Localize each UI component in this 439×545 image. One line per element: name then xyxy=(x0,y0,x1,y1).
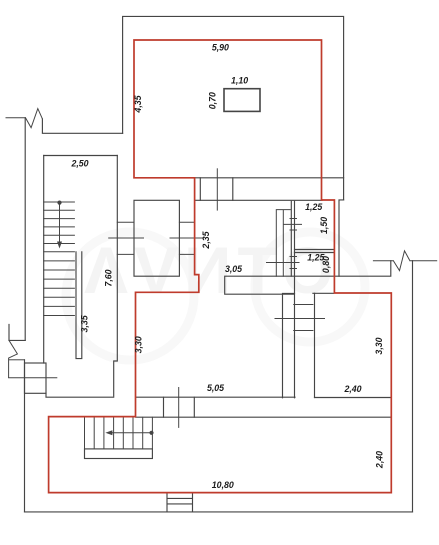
table rect top room xyxy=(224,89,260,112)
wall outer left upper xyxy=(24,118,26,341)
wall outer bottom xyxy=(25,511,413,513)
door leaf middle right xyxy=(276,210,290,277)
stairwell left wall xyxy=(43,156,45,364)
svg-text:2,40: 2,40 xyxy=(374,451,384,469)
door jambs top middle xyxy=(200,178,233,201)
bottom stair arrow head xyxy=(105,430,112,435)
bottom stair arrow xyxy=(108,432,150,434)
right room bottom wall xyxy=(315,397,391,399)
wall top-left horizontal xyxy=(42,119,122,133)
svg-text:3,05: 3,05 xyxy=(225,264,242,274)
stair direction arrow xyxy=(59,204,61,246)
svg-text:0,70: 0,70 xyxy=(207,92,217,109)
svg-text:ΛVИТО: ΛVИТО xyxy=(84,233,340,307)
wall outer top room xyxy=(123,16,344,200)
stair arrow dot upper xyxy=(57,201,61,205)
svg-text:3,30: 3,30 xyxy=(374,337,384,354)
watermark circle 1 xyxy=(66,232,194,360)
red apartment boundary xyxy=(49,40,392,493)
svg-text:5,05: 5,05 xyxy=(207,383,224,393)
svg-text:1,10: 1,10 xyxy=(231,76,248,86)
vestibule door axis xyxy=(9,377,57,379)
svg-text:3,35: 3,35 xyxy=(79,315,89,332)
stair stringer wall xyxy=(76,252,82,359)
svg-text:1,50: 1,50 xyxy=(319,217,329,234)
break stub lower-left xyxy=(10,359,25,361)
svg-text:5,90: 5,90 xyxy=(212,43,229,53)
svg-text:2,35: 2,35 xyxy=(201,231,211,249)
vestibule wall to corridor xyxy=(46,393,114,397)
vent box ticks xyxy=(109,222,204,254)
wall outer left lower xyxy=(24,360,26,512)
right room left wall xyxy=(314,293,316,397)
wall below band thick xyxy=(283,293,295,397)
small rooms divider xyxy=(295,250,335,253)
stair risers lower flight xyxy=(44,261,75,316)
watermark circle 2 xyxy=(255,232,365,342)
wall outer right xyxy=(412,261,414,512)
break symbol right xyxy=(373,251,436,271)
bottom stair risers xyxy=(85,417,153,449)
vestibule box xyxy=(25,363,47,393)
break symbol top-left xyxy=(6,109,42,128)
window bottom wall xyxy=(167,493,193,512)
bottom door axis xyxy=(178,388,180,428)
stairwell top xyxy=(44,155,118,157)
bottom stair arrow dot xyxy=(149,431,153,435)
bottom band bottom line xyxy=(136,416,391,418)
bottom stair landing xyxy=(85,449,153,459)
wall band middle horizontal xyxy=(225,276,339,294)
svg-text:2,50: 2,50 xyxy=(70,159,88,169)
wall band below top room xyxy=(195,178,344,201)
svg-text:7,60: 7,60 xyxy=(104,269,114,286)
svg-text:10,80: 10,80 xyxy=(212,480,234,490)
svg-text:2,40: 2,40 xyxy=(343,384,361,394)
svg-text:0,80: 0,80 xyxy=(321,256,331,273)
door ticks lower xyxy=(267,257,300,269)
stairwell right wall xyxy=(114,156,118,397)
wall jog left xyxy=(9,325,25,341)
door ticks lower opening xyxy=(275,305,325,331)
door ticks upper xyxy=(284,219,302,231)
right room top wall black part xyxy=(313,292,334,294)
bottom band top line xyxy=(136,396,295,398)
wall small rooms left upper xyxy=(291,201,294,397)
svg-text:1,25: 1,25 xyxy=(305,202,322,212)
stair risers upper flight xyxy=(44,202,75,252)
wall right upper connector xyxy=(339,200,391,276)
door axis top middle xyxy=(216,169,218,210)
bottom door jambs xyxy=(164,397,195,417)
svg-text:3,30: 3,30 xyxy=(134,336,144,353)
break symbol lower-left xyxy=(9,340,18,377)
svg-text:4,35: 4,35 xyxy=(133,95,143,113)
stair arrow head upper xyxy=(57,242,62,249)
vent box xyxy=(134,200,179,276)
